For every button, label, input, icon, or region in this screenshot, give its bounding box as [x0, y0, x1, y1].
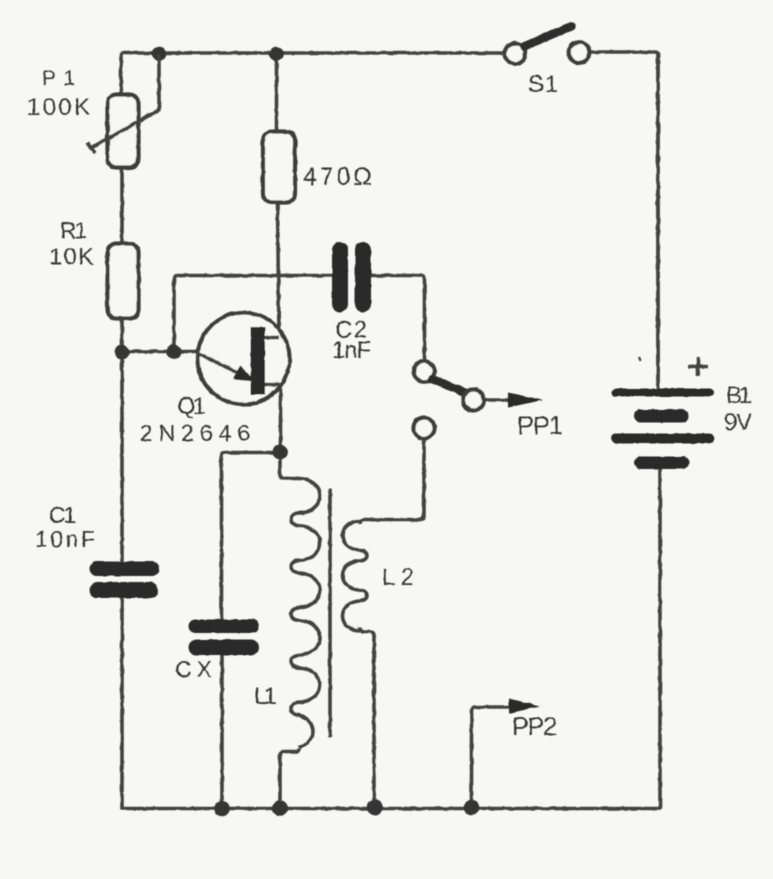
svg-text:PP2: PP2	[512, 713, 557, 741]
svg-text:470Ω: 470Ω	[303, 163, 372, 191]
svg-text:P1: P1	[42, 67, 75, 90]
svg-text:10nF: 10nF	[35, 526, 95, 552]
svg-text:100K: 100K	[27, 94, 90, 121]
svg-text:PP1: PP1	[517, 412, 563, 440]
svg-text:1nF: 1nF	[332, 337, 371, 364]
svg-text:S1: S1	[528, 71, 558, 98]
svg-text:L1: L1	[254, 683, 277, 710]
svg-text:R1: R1	[60, 218, 87, 244]
svg-text:Q1: Q1	[177, 393, 206, 420]
svg-text:10K: 10K	[49, 244, 94, 271]
svg-text:CX: CX	[175, 656, 212, 682]
svg-text:B1: B1	[726, 382, 752, 409]
svg-text:9V: 9V	[724, 409, 752, 436]
svg-text:2N2646: 2N2646	[140, 420, 250, 446]
svg-text:C1: C1	[49, 502, 76, 528]
svg-text:L2: L2	[382, 564, 414, 591]
